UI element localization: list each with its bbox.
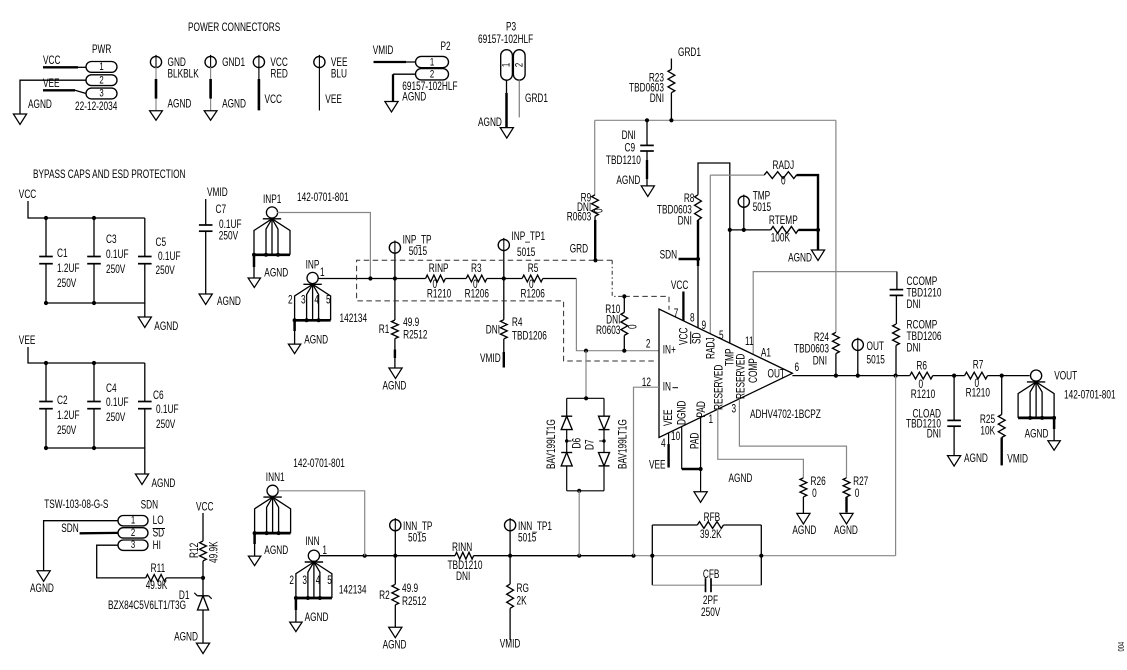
svg-text:R27: R27 [853, 476, 869, 489]
svg-text:DNI: DNI [813, 355, 827, 368]
svg-text:250V: 250V [57, 425, 77, 438]
svg-text:250V: 250V [106, 412, 126, 425]
svg-text:P3: P3 [506, 21, 516, 34]
svg-text:BLU: BLU [331, 68, 347, 81]
svg-text:22-12-2034: 22-12-2034 [75, 101, 118, 114]
svg-text:RESERVED: RESERVED [713, 365, 726, 410]
svg-text:5015: 5015 [753, 202, 772, 215]
svg-text:5015: 5015 [408, 532, 427, 545]
svg-text:VEE: VEE [649, 459, 666, 472]
svg-text:TSW-103-08-G-S: TSW-103-08-G-S [44, 499, 108, 512]
svg-text:GND1: GND1 [222, 57, 245, 70]
svg-text:BLKBLK: BLKBLK [168, 68, 200, 81]
svg-text:4: 4 [316, 575, 321, 588]
svg-text:R2512: R2512 [403, 329, 428, 342]
svg-text:1: 1 [320, 267, 325, 280]
svg-text:R1210: R1210 [427, 288, 452, 301]
svg-text:IN+: IN+ [663, 344, 676, 357]
svg-text:AGND: AGND [383, 380, 407, 393]
svg-text:RG: RG [517, 583, 530, 596]
svg-text:5015: 5015 [867, 354, 886, 367]
svg-text:VCC: VCC [265, 94, 282, 107]
svg-text:SD: SD [153, 527, 165, 540]
svg-text:D7: D7 [584, 439, 597, 450]
svg-text:BZX84C5V6LT1/T3G: BZX84C5V6LT1/T3G [108, 600, 186, 613]
svg-text:AGND: AGND [264, 267, 288, 280]
svg-text:R4: R4 [512, 317, 523, 330]
svg-text:250V: 250V [219, 230, 239, 243]
svg-text:9: 9 [702, 320, 707, 333]
svg-text:100K: 100K [771, 232, 791, 245]
svg-text:4: 4 [314, 294, 319, 307]
svg-text:RINP: RINP [429, 263, 449, 276]
svg-text:VCC: VCC [196, 501, 213, 514]
svg-text:C5: C5 [156, 237, 167, 250]
svg-text:RED: RED [270, 68, 287, 81]
svg-text:49.9K: 49.9K [208, 541, 221, 563]
svg-text:BAV199LT1G: BAV199LT1G [617, 419, 630, 469]
svg-text:RFB: RFB [704, 512, 721, 525]
svg-text:INN: INN [305, 536, 319, 549]
svg-text:R1206: R1206 [521, 288, 546, 301]
svg-text:49.9K: 49.9K [146, 580, 168, 593]
svg-text:SDN: SDN [141, 499, 158, 512]
svg-text:R1206: R1206 [465, 288, 490, 301]
svg-text:2: 2 [289, 575, 294, 588]
svg-text:VMID: VMID [207, 187, 228, 200]
svg-text:PWR: PWR [92, 44, 111, 57]
svg-text:69157-102HLF: 69157-102HLF [478, 34, 533, 47]
svg-text:LO: LO [153, 515, 164, 528]
svg-text:HI: HI [153, 540, 161, 553]
svg-text:R7: R7 [973, 359, 984, 372]
svg-text:AGND: AGND [30, 583, 54, 596]
svg-text:0.1UF: 0.1UF [106, 249, 129, 262]
svg-text:RINN: RINN [452, 542, 472, 555]
svg-text:6: 6 [795, 362, 800, 375]
svg-text:C9: C9 [625, 142, 636, 155]
svg-text:OUT: OUT [867, 341, 884, 354]
svg-text:VOUT: VOUT [1054, 370, 1077, 383]
svg-text:1: 1 [499, 63, 512, 67]
svg-text:49.9: 49.9 [402, 583, 418, 596]
svg-text:VCC: VCC [671, 280, 688, 293]
svg-text:R0603: R0603 [596, 325, 621, 338]
svg-text:AGND: AGND [264, 545, 288, 558]
svg-text:COMP: COMP [748, 358, 761, 383]
svg-text:BYPASS CAPS AND ESD PROTECTION: BYPASS CAPS AND ESD PROTECTION [33, 169, 186, 182]
svg-text:D6: D6 [571, 438, 584, 449]
svg-text:0: 0 [812, 488, 817, 501]
svg-text:RADJ: RADJ [705, 337, 718, 359]
svg-text:250V: 250V [156, 265, 176, 278]
svg-text:SDN: SDN [660, 249, 677, 262]
svg-text:0: 0 [781, 175, 786, 188]
svg-text:4: 4 [661, 438, 666, 451]
svg-text:39.2K: 39.2K [700, 529, 722, 542]
svg-text:1.2UF: 1.2UF [57, 410, 80, 423]
svg-text:142-0701-801: 142-0701-801 [293, 458, 345, 471]
svg-text:DNI: DNI [650, 93, 664, 106]
svg-text:R1210: R1210 [911, 389, 936, 402]
svg-text:INN1: INN1 [266, 472, 285, 485]
svg-text:AGND: AGND [305, 612, 329, 625]
svg-text:AGND: AGND [174, 631, 198, 644]
svg-text:3: 3 [301, 294, 306, 307]
svg-text:VMID: VMID [373, 45, 394, 58]
svg-text:3: 3 [302, 575, 307, 588]
svg-text:AGND: AGND [152, 478, 176, 491]
svg-text:2: 2 [288, 294, 293, 307]
svg-text:OUT: OUT [768, 368, 785, 381]
svg-text:R0603: R0603 [567, 211, 592, 224]
svg-text:R1210: R1210 [966, 387, 991, 400]
svg-text:2PF: 2PF [703, 595, 718, 608]
svg-text:0: 0 [627, 324, 640, 329]
svg-text:7: 7 [674, 308, 679, 321]
svg-text:GRD1: GRD1 [525, 93, 548, 106]
svg-text:AGND: AGND [792, 525, 816, 538]
svg-text:R3: R3 [471, 263, 482, 276]
svg-text:VMID: VMID [480, 353, 501, 366]
svg-text:250V: 250V [156, 419, 176, 432]
svg-text:DNI: DNI [622, 130, 636, 143]
svg-text:DNI: DNI [907, 299, 921, 312]
svg-text:2: 2 [430, 67, 434, 80]
svg-text:AGND: AGND [1025, 428, 1049, 441]
svg-text:2: 2 [99, 73, 103, 86]
svg-text:49.9: 49.9 [403, 317, 419, 330]
svg-text:142-0701-801: 142-0701-801 [1064, 389, 1116, 402]
svg-text:250V: 250V [57, 278, 77, 291]
svg-text:1: 1 [99, 60, 103, 73]
svg-text:DNI: DNI [456, 571, 470, 584]
svg-text:R5: R5 [528, 263, 539, 276]
svg-text:R11: R11 [151, 563, 166, 576]
svg-text:INP1: INP1 [263, 194, 282, 207]
svg-text:5: 5 [326, 294, 331, 307]
svg-text:RESERVED: RESERVED [735, 354, 748, 399]
svg-text:AGND: AGND [402, 91, 426, 104]
svg-text:IN: IN [663, 381, 671, 394]
svg-text:1.2UF: 1.2UF [57, 263, 80, 276]
svg-text:VMID: VMID [1007, 453, 1028, 466]
svg-text:AGND: AGND [478, 117, 502, 130]
svg-text:AGND: AGND [28, 99, 52, 112]
svg-text:GRD: GRD [570, 243, 588, 256]
svg-text:AGND: AGND [616, 175, 640, 188]
svg-text:INP: INP [306, 259, 320, 272]
svg-text:AGND: AGND [788, 252, 812, 265]
svg-text:RTEMP: RTEMP [769, 215, 798, 228]
svg-text:R6: R6 [916, 360, 927, 373]
svg-text:TBD1210: TBD1210 [606, 155, 641, 168]
svg-text:AGND: AGND [964, 453, 988, 466]
svg-text:2K: 2K [517, 595, 527, 608]
svg-text:TBD1206: TBD1206 [512, 330, 547, 343]
svg-text:SD: SD [691, 332, 704, 344]
svg-text:AGND: AGND [834, 525, 858, 538]
svg-text:8: 8 [690, 312, 695, 325]
svg-text:GRD1: GRD1 [678, 47, 701, 60]
svg-text:C2: C2 [57, 395, 68, 408]
svg-text:5015: 5015 [409, 246, 428, 259]
svg-text:VEE: VEE [663, 409, 676, 426]
svg-text:INP_TP1: INP_TP1 [512, 231, 546, 244]
svg-text:PAD: PAD [696, 401, 709, 417]
svg-text:1: 1 [430, 55, 434, 68]
svg-text:TBD0603: TBD0603 [794, 343, 829, 356]
svg-text:C4: C4 [106, 383, 117, 396]
svg-text:VCC: VCC [678, 328, 691, 345]
svg-text:0: 0 [855, 488, 860, 501]
svg-text:DNI: DNI [907, 342, 921, 355]
svg-text:C7: C7 [216, 204, 227, 217]
svg-text:0.1UF: 0.1UF [156, 404, 179, 417]
svg-text:250V: 250V [701, 607, 721, 620]
svg-text:C3: C3 [106, 234, 117, 247]
svg-text:142-0701-801: 142-0701-801 [297, 192, 349, 205]
svg-text:10K: 10K [980, 425, 995, 438]
svg-text:142134: 142134 [340, 313, 368, 326]
svg-text:3: 3 [131, 538, 135, 551]
svg-text:VCC: VCC [19, 189, 36, 202]
svg-text:DNI: DNI [486, 324, 500, 337]
svg-text:AGND: AGND [217, 296, 241, 309]
svg-text:SDN: SDN [61, 523, 78, 536]
svg-text:P2: P2 [441, 41, 451, 54]
svg-text:1: 1 [322, 545, 327, 558]
svg-text:2: 2 [512, 63, 525, 67]
svg-text:2: 2 [646, 338, 651, 351]
svg-text:AGND: AGND [154, 321, 178, 334]
svg-text:ADHV4702-1BCPZ: ADHV4702-1BCPZ [750, 409, 821, 422]
svg-text:VEE: VEE [19, 335, 36, 348]
svg-text:R26: R26 [811, 476, 827, 489]
svg-text:004: 004 [1118, 642, 1126, 652]
svg-text:10: 10 [671, 431, 681, 444]
svg-text:VCC: VCC [43, 55, 60, 68]
svg-text:DNI: DNI [678, 215, 692, 228]
svg-text:1: 1 [709, 414, 714, 427]
svg-text:3: 3 [732, 403, 737, 416]
svg-text:5015: 5015 [518, 532, 537, 545]
svg-text:C6: C6 [153, 390, 164, 403]
svg-text:5: 5 [719, 330, 724, 343]
svg-text:3: 3 [99, 86, 103, 99]
svg-text:R2: R2 [379, 590, 390, 603]
svg-text:AGND: AGND [168, 98, 192, 111]
svg-text:CFB: CFB [703, 569, 720, 582]
svg-text:AGND: AGND [222, 98, 246, 111]
svg-text:A1: A1 [761, 347, 771, 360]
svg-text:0: 0 [593, 208, 606, 213]
svg-text:AGND: AGND [304, 334, 328, 347]
svg-text:5: 5 [327, 575, 332, 588]
svg-text:VMID: VMID [500, 638, 521, 651]
svg-text:VEE: VEE [325, 94, 342, 107]
svg-text:1: 1 [131, 513, 135, 526]
svg-text:AGND: AGND [729, 473, 753, 486]
svg-text:R1: R1 [379, 324, 390, 337]
svg-text:AGND: AGND [383, 639, 407, 652]
svg-text:11: 11 [745, 336, 754, 349]
svg-text:5015: 5015 [517, 247, 536, 260]
svg-text:R2512: R2512 [402, 596, 427, 609]
svg-text:DGND: DGND [676, 401, 689, 425]
svg-text:R12: R12 [189, 542, 202, 558]
svg-text:C1: C1 [57, 248, 68, 261]
svg-text:2: 2 [131, 525, 135, 538]
svg-text:0.1UF: 0.1UF [106, 397, 129, 410]
svg-text:142134: 142134 [339, 584, 367, 597]
svg-text:RADJ: RADJ [773, 160, 795, 173]
svg-text:DNI: DNI [927, 428, 941, 441]
svg-text:0.1UF: 0.1UF [158, 251, 181, 264]
svg-text:250V: 250V [106, 264, 126, 277]
svg-text:POWER CONNECTORS: POWER CONNECTORS [188, 22, 281, 35]
svg-text:BAV199LT1G: BAV199LT1G [546, 419, 559, 469]
